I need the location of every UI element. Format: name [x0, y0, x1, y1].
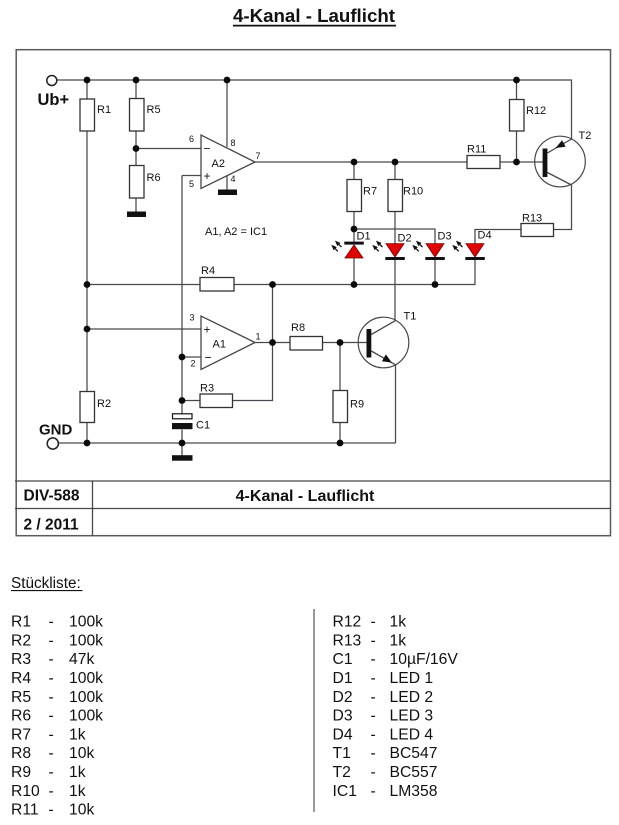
wire: A2 output row to T2 base: [255, 161, 543, 163]
svg-text:Ub+: Ub+: [38, 91, 70, 109]
capacitor C1: [172, 414, 210, 432]
svg-text:R11: R11: [11, 802, 39, 819]
wire: R7 branch down to D1: [353, 162, 355, 242]
svg-text:+: +: [204, 169, 211, 183]
svg-text:R1: R1: [11, 614, 31, 631]
wire: A2 pin8 supply: [226, 80, 228, 147]
resistor R4: [200, 265, 234, 291]
svg-text:-: -: [49, 651, 54, 668]
svg-text:4-Kanal - Lauflicht: 4-Kanal - Lauflicht: [236, 488, 375, 505]
svg-text:100k: 100k: [69, 708, 103, 725]
svg-text:R7: R7: [11, 726, 31, 743]
node: R4/feedback: [269, 281, 276, 288]
svg-text:R7: R7: [363, 186, 377, 198]
node: out A2/R7: [351, 159, 358, 166]
svg-text:D2: D2: [398, 233, 412, 245]
node: gnd/R1: [84, 440, 91, 447]
svg-text:R8: R8: [291, 322, 305, 334]
svg-text:-: -: [371, 651, 376, 668]
svg-text:2 / 2011: 2 / 2011: [24, 517, 80, 534]
svg-text:A1: A1: [213, 339, 226, 351]
column divider: [313, 609, 315, 812]
svg-text:3: 3: [190, 313, 195, 323]
svg-text:T2: T2: [333, 764, 351, 781]
svg-text:BC547: BC547: [390, 745, 438, 762]
svg-text:R6: R6: [147, 172, 161, 184]
wire: feedback x=272.5 vertical and R3 link: [182, 285, 273, 401]
svg-text:1k: 1k: [69, 764, 86, 781]
wire: D1 cathode to LED rail: [353, 258, 355, 285]
node: R8/R9/T1 base: [337, 339, 344, 346]
node: rail/pin8: [224, 77, 231, 84]
svg-text:-: -: [49, 632, 54, 649]
node: rail/R12: [513, 77, 520, 84]
svg-text:-: -: [371, 745, 376, 762]
resistor R7: [347, 180, 377, 212]
resistor R13: [521, 213, 554, 237]
svg-text:-: -: [49, 614, 54, 631]
resistor R9: [333, 391, 364, 423]
wire: D2 cathode to T1 collector: [394, 260, 396, 321]
svg-text:D1: D1: [357, 231, 371, 243]
svg-text:1k: 1k: [69, 783, 86, 800]
svg-text:LM358: LM358: [390, 783, 438, 800]
wire: D1/D3 anode link: [354, 229, 435, 244]
svg-text:R10: R10: [11, 783, 40, 800]
node: gnd/C1: [179, 440, 186, 447]
svg-text:R3: R3: [11, 651, 31, 668]
node: A1 out: [269, 339, 276, 346]
wire: R10 branch down to D2: [394, 162, 396, 244]
svg-text:-: -: [49, 745, 54, 762]
wire: ground rail: [58, 442, 396, 444]
svg-text:D1: D1: [333, 670, 353, 687]
ground under R6: [127, 212, 146, 218]
svg-text:-: -: [371, 708, 376, 725]
svg-text:10k: 10k: [69, 802, 94, 819]
resistor R1: [80, 99, 111, 131]
wire: LED bottom rail / R4 row: [87, 260, 475, 285]
svg-text:5: 5: [189, 179, 194, 189]
svg-text:7: 7: [256, 151, 261, 161]
svg-text:IC1: IC1: [333, 783, 357, 800]
svg-text:-: -: [371, 689, 376, 706]
svg-text:6: 6: [189, 134, 194, 144]
op-amp A1: [190, 313, 261, 370]
svg-text:C1: C1: [196, 420, 210, 432]
svg-text:T2: T2: [579, 130, 592, 142]
svg-text:1k: 1k: [390, 632, 407, 649]
svg-text:−: −: [204, 142, 211, 156]
transistor T1: [358, 311, 416, 368]
svg-text:DIV-588: DIV-588: [24, 488, 80, 505]
svg-text:8: 8: [231, 138, 236, 148]
svg-text:100k: 100k: [69, 614, 103, 631]
LED D1: [331, 231, 370, 259]
svg-text:C1: C1: [333, 651, 353, 668]
svg-text:100k: 100k: [69, 632, 103, 649]
terminal GND: [47, 438, 58, 449]
wire: A2 pin6 input: [136, 148, 201, 150]
wire: T1 emitter down: [395, 365, 397, 444]
svg-text:D4: D4: [333, 726, 353, 743]
svg-text:D2: D2: [333, 689, 353, 706]
resistor R8: [290, 322, 323, 350]
resistor R2: [80, 392, 111, 423]
svg-text:LED 4: LED 4: [390, 726, 434, 743]
title block row lines: [15, 481, 610, 535]
ground under C1: [172, 455, 193, 461]
svg-text:R4: R4: [201, 265, 215, 277]
svg-text:100k: 100k: [69, 670, 103, 687]
svg-text:100k: 100k: [69, 689, 103, 706]
svg-text:LED 3: LED 3: [390, 708, 434, 725]
svg-text:R9: R9: [11, 764, 31, 781]
svg-text:R5: R5: [147, 104, 161, 116]
LED D4: [452, 230, 491, 261]
svg-text:D3: D3: [438, 231, 452, 243]
svg-text:R12: R12: [526, 105, 546, 117]
svg-text:1k: 1k: [390, 614, 407, 631]
svg-text:R2: R2: [97, 398, 111, 410]
svg-text:-: -: [49, 726, 54, 743]
svg-text:R1: R1: [97, 104, 111, 116]
wire: R1 branch vertical x=87: [86, 80, 88, 443]
svg-text:R4: R4: [11, 670, 31, 687]
wire: T2 collector down and to R13: [554, 185, 572, 230]
svg-text:R8: R8: [11, 745, 31, 762]
op-amp A2: [189, 134, 261, 189]
svg-text:-: -: [371, 783, 376, 800]
svg-text:D4: D4: [478, 230, 492, 242]
svg-text:R2: R2: [11, 632, 31, 649]
svg-text:-: -: [49, 783, 54, 800]
LED D2: [372, 233, 411, 261]
svg-text:R3: R3: [200, 383, 214, 395]
wire: R9 branch: [339, 343, 341, 444]
node: R7/D1/D3: [351, 226, 358, 233]
svg-text:2: 2: [191, 359, 196, 369]
resistor R3: [200, 383, 233, 408]
wire: R5/R6 branch vertical x=136: [135, 80, 137, 212]
svg-text:R9: R9: [350, 399, 364, 411]
node: rail/R1: [84, 77, 91, 84]
svg-text:R12: R12: [333, 614, 362, 631]
svg-text:-: -: [49, 708, 54, 725]
resistor R10: [388, 180, 423, 212]
svg-text:R13: R13: [522, 213, 542, 225]
svg-text:-: -: [371, 614, 376, 631]
svg-text:GND: GND: [39, 422, 73, 439]
node: rail/R1 mid: [84, 281, 91, 288]
wire: A1 output row to T1 base: [255, 342, 367, 344]
svg-text:R13: R13: [333, 632, 362, 649]
svg-text:T1: T1: [404, 311, 417, 323]
resistor R11: [467, 144, 500, 169]
resistor R6: [130, 166, 161, 199]
svg-text:A2: A2: [212, 158, 225, 170]
node: R5/R6/pin6: [133, 145, 140, 152]
node: rail/R5: [133, 77, 140, 84]
transistor T2: [535, 130, 592, 187]
svg-text:10k: 10k: [69, 745, 94, 762]
wire: A1 pin2 input: [182, 356, 201, 358]
svg-text:1k: 1k: [69, 726, 86, 743]
wire: A2 pin4 to ground: [226, 176, 228, 191]
svg-text:4: 4: [231, 174, 236, 184]
svg-text:A1, A2 = IC1: A1, A2 = IC1: [205, 226, 267, 238]
node: out A2/R10: [392, 159, 399, 166]
LED D3: [412, 231, 451, 261]
svg-text:-: -: [49, 670, 54, 687]
node: A1 pin2: [179, 354, 186, 361]
svg-text:-: -: [371, 632, 376, 649]
title: [233, 5, 396, 26]
svg-text:-: -: [371, 726, 376, 743]
svg-text:R5: R5: [11, 689, 31, 706]
node: A1 pin3: [84, 326, 91, 333]
svg-text:-: -: [49, 689, 54, 706]
wire: top supply rail Ub+ to T2 emitter: [57, 80, 572, 139]
node: D3 cathode rail: [432, 281, 439, 288]
svg-text:Stückliste:: Stückliste:: [11, 575, 81, 592]
svg-text:47k: 47k: [69, 651, 94, 668]
wire: R12 vertical: [516, 80, 518, 162]
wire: A2 pin5 input horizontal: [182, 175, 201, 177]
schematic frame border: [16, 50, 610, 536]
svg-text:R6: R6: [11, 708, 31, 725]
svg-text:-: -: [49, 764, 54, 781]
svg-text:10µF/16V: 10µF/16V: [390, 651, 459, 668]
svg-text:LED 2: LED 2: [390, 689, 434, 706]
node: gnd/R9: [337, 440, 344, 447]
svg-text:+: +: [204, 323, 211, 337]
resistor R5: [130, 99, 161, 132]
svg-text:R10: R10: [403, 186, 423, 198]
svg-text:1: 1: [256, 332, 261, 342]
node: R3/C1: [179, 397, 186, 404]
wire: C1 bottom to ground rail and stub: [181, 430, 183, 456]
svg-text:T1: T1: [333, 745, 351, 762]
svg-text:-: -: [371, 764, 376, 781]
node: D1 cathode rail: [351, 281, 358, 288]
wire: D3 cathode to LED rail: [434, 260, 436, 285]
svg-text:BC557: BC557: [390, 764, 438, 781]
svg-text:-: -: [371, 670, 376, 687]
wire: R13 to D4 anode: [475, 230, 521, 244]
svg-text:−: −: [205, 351, 212, 365]
resistor R12: [510, 100, 547, 132]
ground under A2 pin4: [218, 190, 237, 196]
svg-text:-: -: [49, 802, 54, 819]
svg-text:D3: D3: [333, 708, 353, 725]
wire: feedback vertical x=182 down to C1: [181, 176, 183, 415]
node: R12/R11/T2 base: [513, 159, 520, 166]
svg-text:4-Kanal - Lauflicht: 4-Kanal - Lauflicht: [233, 5, 395, 26]
terminal Ub+: [47, 76, 57, 86]
wire: A1 pin3 input: [87, 328, 201, 330]
svg-text:R11: R11: [467, 144, 486, 156]
svg-text:LED 1: LED 1: [390, 670, 434, 687]
